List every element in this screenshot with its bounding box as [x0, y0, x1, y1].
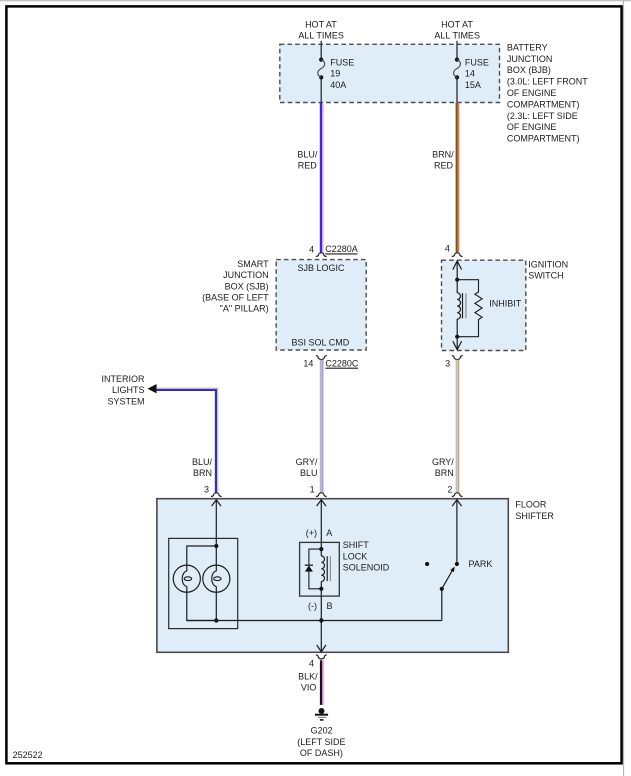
svg-text:BLK/: BLK/ — [298, 671, 318, 681]
svg-text:"A" PILLAR): "A" PILLAR) — [220, 304, 269, 314]
svg-text:BRN: BRN — [435, 468, 454, 478]
wire: lamp main feed (pin 3 internal) — [215, 500, 217, 621]
svg-text:SJB LOGIC: SJB LOGIC — [297, 263, 345, 273]
svg-text:IGNITION: IGNITION — [528, 259, 568, 269]
node: HOT AT ALL TIMES (left feed) — [298, 19, 344, 40]
fuse 14 15A — [454, 58, 461, 80]
connector symbol at floor shifter pin 3 — [211, 493, 222, 497]
wire: park pivot to ground rail — [441, 589, 443, 621]
connector C2280A label — [325, 244, 358, 254]
svg-text:G202: G202 — [311, 726, 333, 736]
svg-text:SYSTEM: SYSTEM — [107, 396, 144, 406]
svg-text:HOT AT: HOT AT — [441, 19, 473, 29]
lamp 1 (shifter illumination bulb) — [173, 565, 200, 592]
svg-text:2: 2 — [447, 485, 452, 495]
svg-text:INHIBIT: INHIBIT — [489, 299, 522, 309]
svg-text:SHIFTER: SHIFTER — [515, 511, 554, 521]
svg-text:RED: RED — [298, 161, 318, 171]
floor shifter box — [157, 499, 508, 653]
arrow out of ignition switch (bottom) — [453, 341, 462, 350]
arrow out of floor shifter (pin 4) — [317, 645, 326, 652]
inhibit coil (inductor) — [457, 293, 460, 319]
svg-text:BLU/: BLU/ — [192, 457, 213, 467]
INTERIOR LIGHTS SYSTEM label — [101, 374, 145, 406]
svg-text:LOCK: LOCK — [343, 551, 368, 561]
arrow to interior lights system — [148, 384, 157, 393]
connector symbol at ignition pin 4 — [452, 253, 463, 257]
wire GRY/BLU: C2280C to floor shifter pin 1 — [321, 360, 323, 493]
svg-text:(LEFT SIDE: (LEFT SIDE — [297, 737, 345, 747]
wire: ignition switch internal (top) — [456, 261, 458, 293]
wire: ground rail — [187, 620, 442, 622]
node: lamp branch bottom junction — [214, 618, 218, 622]
svg-text:OF ENGINE: OF ENGINE — [507, 88, 557, 98]
wire: left feed into fuse 19 — [320, 41, 322, 60]
svg-text:ALL TIMES: ALL TIMES — [434, 31, 480, 41]
shift lock solenoid label — [343, 540, 390, 572]
svg-text:B: B — [327, 601, 333, 611]
wire label BLK/VIO — [298, 671, 318, 692]
svg-text:OF DASH): OF DASH) — [300, 748, 343, 758]
svg-text:GRY/: GRY/ — [432, 457, 454, 467]
svg-text:BRN/: BRN/ — [432, 149, 454, 159]
svg-text:RED: RED — [434, 161, 454, 171]
svg-text:3: 3 — [204, 485, 209, 495]
diode D1 (clamping diode) branch — [305, 549, 322, 589]
wire BRN/RED: BJB to ignition switch pin 4 — [457, 103, 459, 253]
node: park switch pivot — [440, 587, 444, 591]
node: lamp branch top junction — [214, 544, 218, 548]
svg-text:PARK: PARK — [469, 559, 493, 569]
fuse 19 value label — [330, 57, 354, 90]
svg-text:ALL TIMES: ALL TIMES — [298, 31, 344, 41]
label (-) B — [308, 601, 333, 611]
svg-text:BATTERY: BATTERY — [507, 42, 548, 52]
svg-text:INTERIOR: INTERIOR — [101, 374, 145, 384]
svg-text:LIGHTS: LIGHTS — [112, 385, 145, 395]
svg-text:BLU/: BLU/ — [297, 149, 318, 159]
wire label BLU/BRN — [192, 457, 213, 478]
node: inhibit coil bottom junction — [455, 335, 459, 339]
shift lock solenoid box — [300, 542, 340, 596]
svg-text:BRN: BRN — [193, 468, 212, 478]
svg-text:4: 4 — [445, 243, 450, 253]
svg-text:(+): (+) — [306, 528, 317, 538]
svg-text:14: 14 — [303, 359, 313, 369]
svg-text:(2.3L: LEFT SIDE: (2.3L: LEFT SIDE — [507, 111, 578, 121]
svg-text:COMPARTMENT): COMPARTMENT) — [507, 99, 580, 109]
ground G202 label — [297, 726, 345, 758]
svg-text:SMART: SMART — [237, 259, 269, 269]
solenoid coil (inductor) — [321, 556, 324, 582]
connector symbol at floor shifter pin 1 — [316, 493, 327, 497]
connector C2280A symbol — [316, 253, 327, 257]
lamp 2 (shifter illumination bulb) — [203, 565, 230, 592]
svg-text:JUNCTION: JUNCTION — [507, 54, 553, 64]
svg-text:3: 3 — [445, 359, 450, 369]
svg-text:19: 19 — [330, 69, 340, 79]
wire GRY/BRN: ignition switch to floor shifter pin 2 — [457, 360, 459, 493]
wire: fuse 19 to BJB bottom — [320, 77, 322, 102]
svg-text:(-): (-) — [308, 601, 317, 611]
connector C2280C symbol — [316, 356, 327, 360]
wire: ignition switch internal (bottom) — [456, 319, 458, 350]
wire: lamp parallel branch — [187, 546, 217, 621]
node: inhibit coil top junction — [455, 278, 459, 282]
arrow into floor shifter pin 3 — [212, 500, 221, 506]
svg-text:GRY/: GRY/ — [296, 457, 318, 467]
svg-text:(BASE OF LEFT: (BASE OF LEFT — [202, 293, 269, 303]
BJB label — [507, 42, 588, 143]
svg-text:SOLENOID: SOLENOID — [343, 563, 390, 573]
connector symbol at floor shifter pin 4 — [316, 655, 327, 659]
svg-text:HOT AT: HOT AT — [305, 19, 337, 29]
solenoid coil core — [327, 556, 330, 581]
battery junction box (BJB) — [280, 44, 500, 102]
wire: fuse 14 to BJB bottom — [456, 77, 458, 102]
node: solenoid top junction — [319, 547, 323, 551]
ground G202 symbol — [315, 708, 328, 720]
ignition switch label — [528, 259, 568, 280]
svg-text:C2280C: C2280C — [325, 359, 359, 369]
fuse 19 40A — [318, 58, 325, 80]
floor shifter label — [515, 499, 554, 520]
arrow into floor shifter pin 2 — [452, 500, 461, 506]
svg-text:FLOOR: FLOOR — [515, 499, 547, 509]
svg-text:BLU: BLU — [300, 468, 318, 478]
wire BLU/RED: BJB to SJB connector C2280A — [321, 103, 323, 253]
park switch open contact node — [425, 562, 429, 566]
svg-text:JUNCTION: JUNCTION — [223, 270, 269, 280]
shifter illumination lamp housing — [169, 538, 238, 628]
svg-text:SHIFT: SHIFT — [343, 540, 370, 550]
svg-text:OF ENGINE: OF ENGINE — [507, 122, 557, 132]
node: ground rail junction at solenoid — [319, 618, 323, 622]
connector symbol at floor shifter pin 2 — [452, 493, 463, 497]
wire label BLU/RED — [297, 149, 318, 170]
svg-text:FUSE: FUSE — [465, 57, 489, 67]
fuse 14 value label — [465, 57, 489, 90]
svg-text:BSI SOL CMD: BSI SOL CMD — [292, 338, 350, 348]
smart junction box (SJB) — [276, 260, 366, 350]
connector C2280C label — [325, 359, 359, 369]
label (+) A — [306, 528, 332, 538]
svg-text:COMPARTMENT): COMPARTMENT) — [507, 134, 580, 144]
arrow into ignition switch (top) — [453, 261, 462, 270]
svg-text:(3.0L: LEFT FRONT: (3.0L: LEFT FRONT — [507, 77, 588, 87]
park switch blade — [442, 567, 455, 589]
wire label BRN/RED — [432, 149, 454, 170]
node: HOT AT ALL TIMES (right feed) — [434, 19, 480, 40]
svg-text:BOX (SJB): BOX (SJB) — [225, 281, 269, 291]
wire: right feed into fuse 14 — [456, 41, 458, 60]
arrow into floor shifter pin 1 — [317, 500, 326, 506]
svg-text:BOX (BJB): BOX (BJB) — [507, 65, 551, 75]
svg-text:A: A — [326, 528, 332, 538]
node: solenoid bottom junction — [319, 587, 323, 591]
wire: park switch feed (pin 2 internal) — [456, 500, 458, 564]
wire label GRY/BLU — [296, 457, 318, 478]
connector symbol at ignition pin 3 — [452, 356, 463, 360]
svg-text:SWITCH: SWITCH — [528, 270, 564, 280]
inhibit resistor branch — [457, 280, 482, 337]
svg-text:4: 4 — [309, 244, 314, 254]
svg-text:4: 4 — [309, 658, 314, 668]
svg-text:1: 1 — [310, 485, 315, 495]
svg-text:VIO: VIO — [301, 683, 317, 693]
wire label GRY/BRN — [432, 457, 454, 478]
SJB label — [202, 259, 269, 314]
wire BLK/VIO: floor shifter pin 4 to ground G202 — [321, 660, 323, 705]
svg-text:40A: 40A — [330, 80, 346, 90]
park switch contact node — [455, 562, 459, 566]
svg-text:C2280A: C2280A — [325, 244, 358, 254]
wire BLU/BRN: floor shifter pin 3 to interior lights system — [156, 388, 217, 493]
ignition switch box — [442, 260, 526, 350]
svg-text:15A: 15A — [465, 80, 481, 90]
svg-text:14: 14 — [465, 69, 475, 79]
inhibit coil core — [463, 293, 466, 318]
svg-text:252522: 252522 — [13, 750, 43, 760]
svg-text:FUSE: FUSE — [330, 57, 354, 67]
wire: solenoid main feed (pin 1 internal) — [320, 500, 322, 652]
